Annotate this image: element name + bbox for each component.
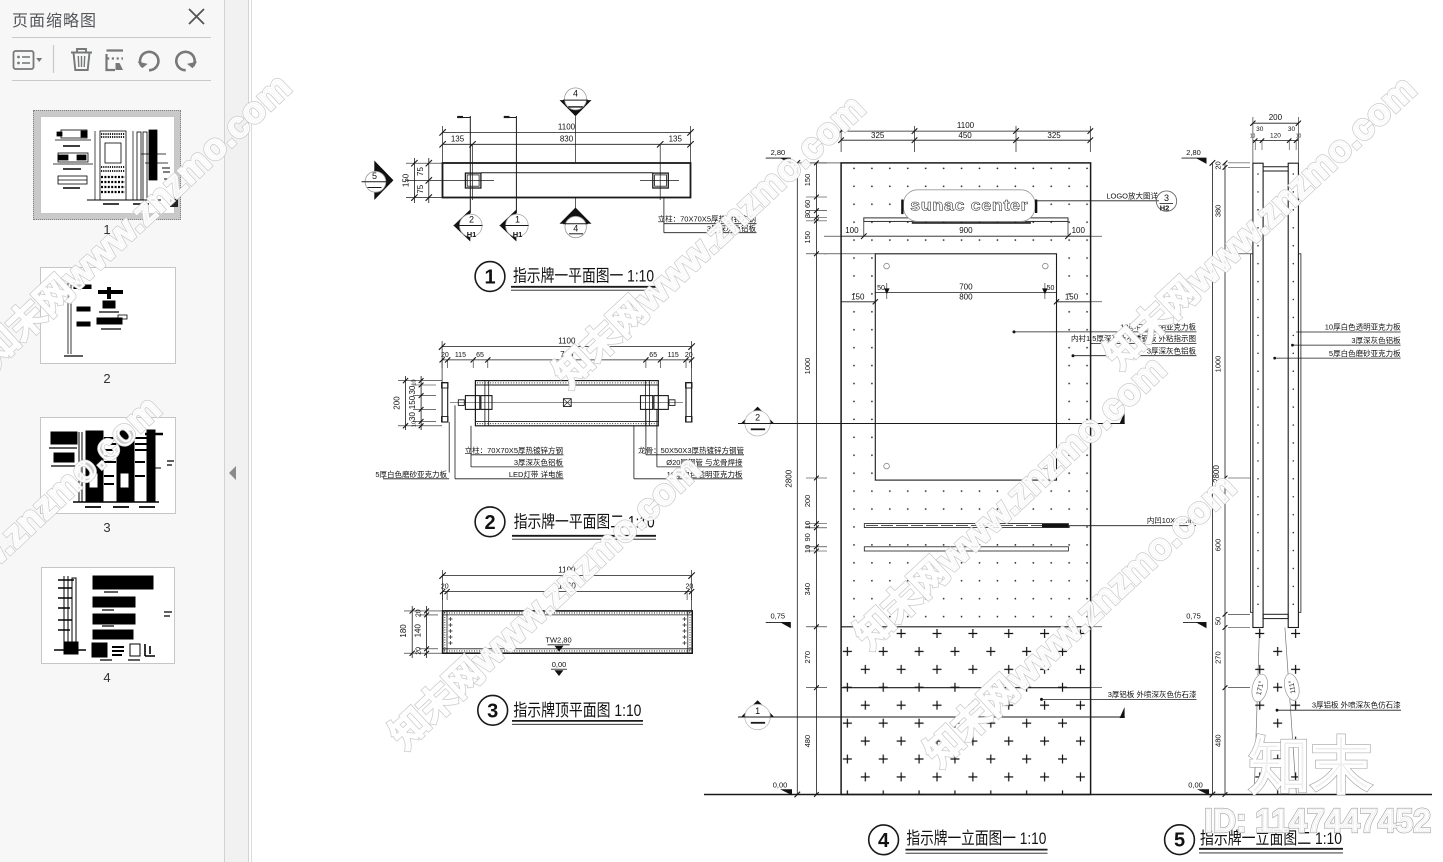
svg-text:指示牌一立面图一 1:10: 指示牌一立面图一 1:10 xyxy=(906,829,1046,848)
svg-text:325: 325 xyxy=(1047,131,1061,140)
svg-text:30: 30 xyxy=(803,210,812,218)
elevation 4: panel corner screws xyxy=(884,263,890,269)
svg-text:100: 100 xyxy=(845,226,859,235)
svg-text:20: 20 xyxy=(416,647,423,655)
drawing 2: left end plate xyxy=(442,383,448,422)
drawing 2: left leader lines xyxy=(448,422,450,473)
svg-text:1: 1 xyxy=(484,267,495,289)
svg-text:380: 380 xyxy=(1214,205,1223,218)
drawing 1: detail marker 1/H1 xyxy=(500,210,517,242)
section line 1-1 through elevation xyxy=(738,716,1125,718)
drawing 1: section cut line 2-2 xyxy=(469,116,471,213)
drawing 2: top dim chain 1100 xyxy=(442,346,691,348)
svg-text:4: 4 xyxy=(878,830,890,852)
elevation 4: stone base with plus pattern xyxy=(842,627,1090,794)
svg-text:1100: 1100 xyxy=(558,123,576,132)
close X button xyxy=(188,8,205,25)
svg-text:指示牌顶平面图 1:10: 指示牌顶平面图 1:10 xyxy=(513,701,641,720)
toolbar icons xyxy=(0,44,225,76)
svg-text:135: 135 xyxy=(669,134,683,143)
svg-text:4: 4 xyxy=(573,89,578,99)
drawing 3: top dim chain 1100 xyxy=(443,575,692,577)
drawing 1: top dim chain 1100 xyxy=(443,131,691,133)
svg-text:10厚白色透明亚克力板: 10厚白色透明亚克力板 xyxy=(1325,322,1401,332)
svg-text:270: 270 xyxy=(1214,651,1223,664)
drawing 1: section cut line 1-1 xyxy=(515,116,517,213)
svg-text:100: 100 xyxy=(1072,226,1086,235)
drawing 5: weld angle balloons xyxy=(1250,673,1270,704)
drawing 3: left dim chain 180 / 20 140 20 xyxy=(411,606,413,658)
drawing 1: left dim chain 150 / 75+75 xyxy=(406,162,443,164)
drawing 1: dim chain 135/830/135 xyxy=(443,143,691,145)
svg-text:90: 90 xyxy=(803,533,812,541)
svg-text:2: 2 xyxy=(755,413,760,423)
thumbnail 1 (selected) xyxy=(33,110,181,220)
svg-text:50: 50 xyxy=(1047,285,1055,292)
elevation 4: dim 50/700/50 xyxy=(875,291,1056,293)
elevation 4: sign panel inner rect xyxy=(875,254,1056,480)
svg-text:65: 65 xyxy=(649,352,657,359)
collapse strip with arrow xyxy=(225,0,249,862)
svg-text:75: 75 xyxy=(416,184,425,193)
svg-text:115: 115 xyxy=(455,352,466,359)
svg-text:75: 75 xyxy=(416,167,425,176)
svg-text:5: 5 xyxy=(372,171,377,181)
drawing 2: left callouts xyxy=(471,454,564,456)
svg-text:4: 4 xyxy=(573,224,578,234)
elevation 4: right extension ticks xyxy=(1091,235,1102,237)
watermark W6a xyxy=(847,348,1173,656)
drawing 1: bottom section marker 4 xyxy=(575,198,577,209)
drawing 2: right leader lines xyxy=(645,409,647,454)
svg-text:3厚铝板 外喷深灰色仿石漆: 3厚铝板 外喷深灰色仿石漆 xyxy=(1312,700,1401,710)
svg-text:20: 20 xyxy=(685,352,693,359)
svg-text:10: 10 xyxy=(1296,134,1302,140)
svg-text:1100: 1100 xyxy=(957,121,975,130)
svg-text:325: 325 xyxy=(871,131,885,140)
drawing 1: sign blade line xyxy=(481,172,653,174)
svg-text:2: 2 xyxy=(469,215,474,225)
svg-text:0,00: 0,00 xyxy=(773,781,788,790)
drawing 5: right callouts (panel layers) xyxy=(1296,331,1400,333)
drawing 1: right callout 立柱 xyxy=(663,198,665,233)
drawing 2: center axis line xyxy=(450,402,683,404)
drawing 2: main box outline xyxy=(475,381,658,426)
svg-text:140: 140 xyxy=(414,623,423,637)
drawing 2: center fixing box xyxy=(563,399,571,407)
drawing 5: tapered base outline xyxy=(1254,628,1259,794)
drawing 2: right callouts xyxy=(646,454,744,456)
drawing 5: bottom cap xyxy=(1263,614,1288,618)
svg-text:20: 20 xyxy=(441,584,449,591)
drawing 5: sub dim chain 30/120/30 xyxy=(1253,140,1299,142)
selection handle xyxy=(170,199,178,207)
svg-text:1: 1 xyxy=(515,215,520,225)
drawing 3: dotted hatch bands xyxy=(444,612,691,614)
svg-text:1000: 1000 xyxy=(1214,356,1223,373)
svg-text:5厚白色磨砂亚克力板: 5厚白色磨砂亚克力板 xyxy=(375,469,447,479)
drawing 2: left dim chain 200 / 30 150 30 xyxy=(405,376,407,430)
svg-text:30: 30 xyxy=(408,412,417,421)
svg-text:2: 2 xyxy=(484,512,495,534)
svg-text:150: 150 xyxy=(402,173,411,187)
svg-text:0,00: 0,00 xyxy=(1188,781,1203,790)
svg-text:270: 270 xyxy=(803,651,812,664)
elevation 4: logo plate bar xyxy=(864,218,1068,222)
title 4: 指示牌一立面图一 1:10 xyxy=(869,825,899,855)
svg-text:20: 20 xyxy=(686,584,694,591)
elevation 4: dim 100/900/100 xyxy=(861,233,867,239)
section marker 2 left xyxy=(741,407,774,424)
svg-text:5厚白色磨砂亚克力板: 5厚白色磨砂亚克力板 xyxy=(1329,348,1401,358)
drawing 3: inner plus ticks xyxy=(449,617,687,621)
thumbnail 3 xyxy=(40,417,176,514)
watermark W7 xyxy=(1097,68,1423,376)
svg-text:30: 30 xyxy=(1288,126,1296,133)
callout 内凹10X10mm xyxy=(1068,525,1196,527)
panel title 页面缩略图 xyxy=(12,7,97,31)
svg-text:LOGO放大图详: LOGO放大图详 xyxy=(1106,190,1158,200)
elevation 4: top dim chain 1100 / 325 450 325 xyxy=(841,130,1090,132)
drawing 1: right column square xyxy=(653,173,669,188)
svg-text:1000: 1000 xyxy=(803,358,812,375)
callout 3厚铝板 外喷深灰色仿石漆 (elevation 4) xyxy=(1040,698,1043,701)
svg-text:200: 200 xyxy=(1269,113,1283,122)
svg-text:120: 120 xyxy=(1270,133,1281,140)
svg-text:sunac center: sunac center xyxy=(910,198,1028,215)
svg-text:900: 900 xyxy=(959,226,973,235)
watermark W6b xyxy=(917,466,1243,774)
thumbnail 2 xyxy=(40,267,176,364)
svg-text:3: 3 xyxy=(1164,193,1169,203)
svg-text:LED灯带 详电施: LED灯带 详电施 xyxy=(509,469,564,479)
drawing 5: left rail xyxy=(1253,163,1263,627)
watermark W2 xyxy=(0,388,169,696)
title 1: 指示牌一平面图一 1:10 xyxy=(475,262,505,292)
svg-text:115: 115 xyxy=(668,352,679,359)
svg-text:450: 450 xyxy=(958,131,972,140)
watermark W3 xyxy=(546,87,872,395)
drawing 5: top dim chain 200 xyxy=(1253,122,1299,124)
elevation 4: groove bar 2 xyxy=(864,547,1068,551)
elevation 4: main outline xyxy=(841,163,1091,795)
svg-text:10: 10 xyxy=(412,421,418,427)
drawing 3: cap plate rectangle xyxy=(443,611,693,653)
svg-text:830: 830 xyxy=(560,134,574,143)
svg-text:480: 480 xyxy=(803,735,812,748)
svg-text:3: 3 xyxy=(487,700,498,722)
svg-text:5: 5 xyxy=(1174,830,1185,852)
svg-text:龙骨：50X50X3厚热镀锌方钢管: 龙骨：50X50X3厚热镀锌方钢管 xyxy=(638,445,744,455)
svg-text:指示牌一平面图一 1:10: 指示牌一平面图一 1:10 xyxy=(513,267,654,286)
drawing 2: left column squares xyxy=(465,396,479,410)
elevation 4: logo bubble sunac center xyxy=(904,190,1036,222)
drawing 1: detail marker 2/H1 xyxy=(454,210,471,242)
svg-text:ID: 1147447452: ID: 1147447452 xyxy=(1204,802,1431,839)
svg-text:65: 65 xyxy=(476,352,484,359)
drawing 5: left acrylic plate xyxy=(1250,254,1253,613)
elevation 4: dim 150/800/150 xyxy=(873,299,878,304)
drawing 2: rod stubs xyxy=(458,400,464,406)
drawing 3: dim chain 20/1060/20 xyxy=(443,591,692,593)
svg-text:立柱：70X70X5厚热镀锌方钢: 立柱：70X70X5厚热镀锌方钢 xyxy=(465,445,563,455)
drawing 1: column centerlines xyxy=(453,179,494,181)
svg-text:20: 20 xyxy=(441,352,449,359)
title 2: 指示牌一平面图二 1:10 xyxy=(475,507,505,537)
title 5: 指示牌一立面图二 1:10 xyxy=(1165,825,1195,855)
svg-text:10: 10 xyxy=(803,521,812,529)
drawing 5: right segment chain xyxy=(1224,163,1226,795)
svg-text:TW2,80: TW2,80 xyxy=(545,635,571,644)
drawing 5: right dim chain 2800 xyxy=(1211,163,1213,795)
elevation 4: horizontal joints xyxy=(841,235,1091,237)
svg-text:20: 20 xyxy=(1214,161,1223,169)
svg-text:10: 10 xyxy=(412,379,418,385)
svg-text:135: 135 xyxy=(451,134,465,143)
svg-text:30: 30 xyxy=(1256,126,1264,133)
svg-text:50: 50 xyxy=(877,285,885,292)
elevation 4: left segment chain xyxy=(815,163,817,795)
LOGO detail callout xyxy=(1037,200,1159,202)
svg-text:150: 150 xyxy=(851,293,865,302)
svg-text:700: 700 xyxy=(959,282,973,291)
svg-text:10: 10 xyxy=(1250,134,1256,140)
drawing 5: right rail xyxy=(1288,163,1298,627)
svg-text:0,75: 0,75 xyxy=(1186,612,1201,621)
svg-text:H1: H1 xyxy=(513,230,523,239)
svg-text:600: 600 xyxy=(1214,539,1223,552)
drawing 1: left column square xyxy=(465,173,481,188)
thumbnail 4 xyxy=(41,567,175,664)
drawing 1: main plan rectangle xyxy=(443,163,691,198)
section line 2-2 through elevation xyxy=(738,423,1125,425)
svg-text:H2: H2 xyxy=(1160,203,1170,212)
drawing 2: sub dim chain 20/115/65/700/65/115/20 xyxy=(442,359,691,361)
svg-text:2,80: 2,80 xyxy=(1186,148,1201,157)
svg-text:3厚深灰色铝板: 3厚深灰色铝板 xyxy=(514,457,564,467)
drawing 5: right acrylic plate xyxy=(1298,254,1301,613)
ground line 0.00 xyxy=(704,794,1432,796)
svg-text:150: 150 xyxy=(803,231,812,244)
svg-text:知末: 知末 xyxy=(1249,733,1372,802)
svg-text:60: 60 xyxy=(803,200,812,208)
drawing 5: top cap xyxy=(1263,166,1288,168)
elevation 4: groove bar 1 xyxy=(864,524,1068,528)
watermark W5 xyxy=(382,448,708,756)
svg-text:200: 200 xyxy=(803,495,812,508)
drawing 2: column through lines xyxy=(484,381,486,426)
left thumbnails panel xyxy=(0,0,225,862)
svg-text:20: 20 xyxy=(416,609,423,617)
title 3: 指示牌顶平面图 1:10 xyxy=(478,695,508,725)
svg-text:200: 200 xyxy=(393,396,402,410)
elevation 4: left chain 2800 xyxy=(796,163,798,795)
elevation 4: right callouts (acrylic panel) xyxy=(1013,330,1016,333)
svg-text:H1: H1 xyxy=(467,230,477,239)
svg-text:150: 150 xyxy=(1065,293,1079,302)
svg-text:0,75: 0,75 xyxy=(770,612,785,621)
svg-text:10: 10 xyxy=(803,545,812,553)
svg-text:340: 340 xyxy=(803,583,812,596)
svg-text:180: 180 xyxy=(399,624,408,638)
drawing 1: top section marker 4 xyxy=(560,100,592,116)
drawing 2: right end plate xyxy=(686,383,692,422)
elevation 4: dotted face pattern xyxy=(842,164,1090,627)
svg-text:50: 50 xyxy=(1214,617,1223,625)
svg-text:3厚铝板 外喷深灰色仿石漆: 3厚铝板 外喷深灰色仿石漆 xyxy=(1108,689,1197,699)
svg-text:150: 150 xyxy=(408,395,417,409)
section marker 1 left xyxy=(741,700,774,717)
callout 3厚铝板 外喷深灰色仿石漆 (drawing 5) xyxy=(1276,709,1279,712)
drawing 1: left view marker 5 xyxy=(374,161,393,201)
svg-text:2800: 2800 xyxy=(785,469,794,487)
svg-text:0,00: 0,00 xyxy=(552,660,567,669)
watermark W1 xyxy=(0,66,299,374)
drawing 2: right column squares xyxy=(641,396,653,410)
svg-text:480: 480 xyxy=(1214,734,1223,747)
svg-text:知末网www.znzmo.com: 知末网www.znzmo.com xyxy=(0,388,169,696)
svg-text:1: 1 xyxy=(755,706,760,716)
svg-text:800: 800 xyxy=(959,293,973,302)
svg-text:3厚深灰色铝板: 3厚深灰色铝板 xyxy=(1351,335,1401,345)
